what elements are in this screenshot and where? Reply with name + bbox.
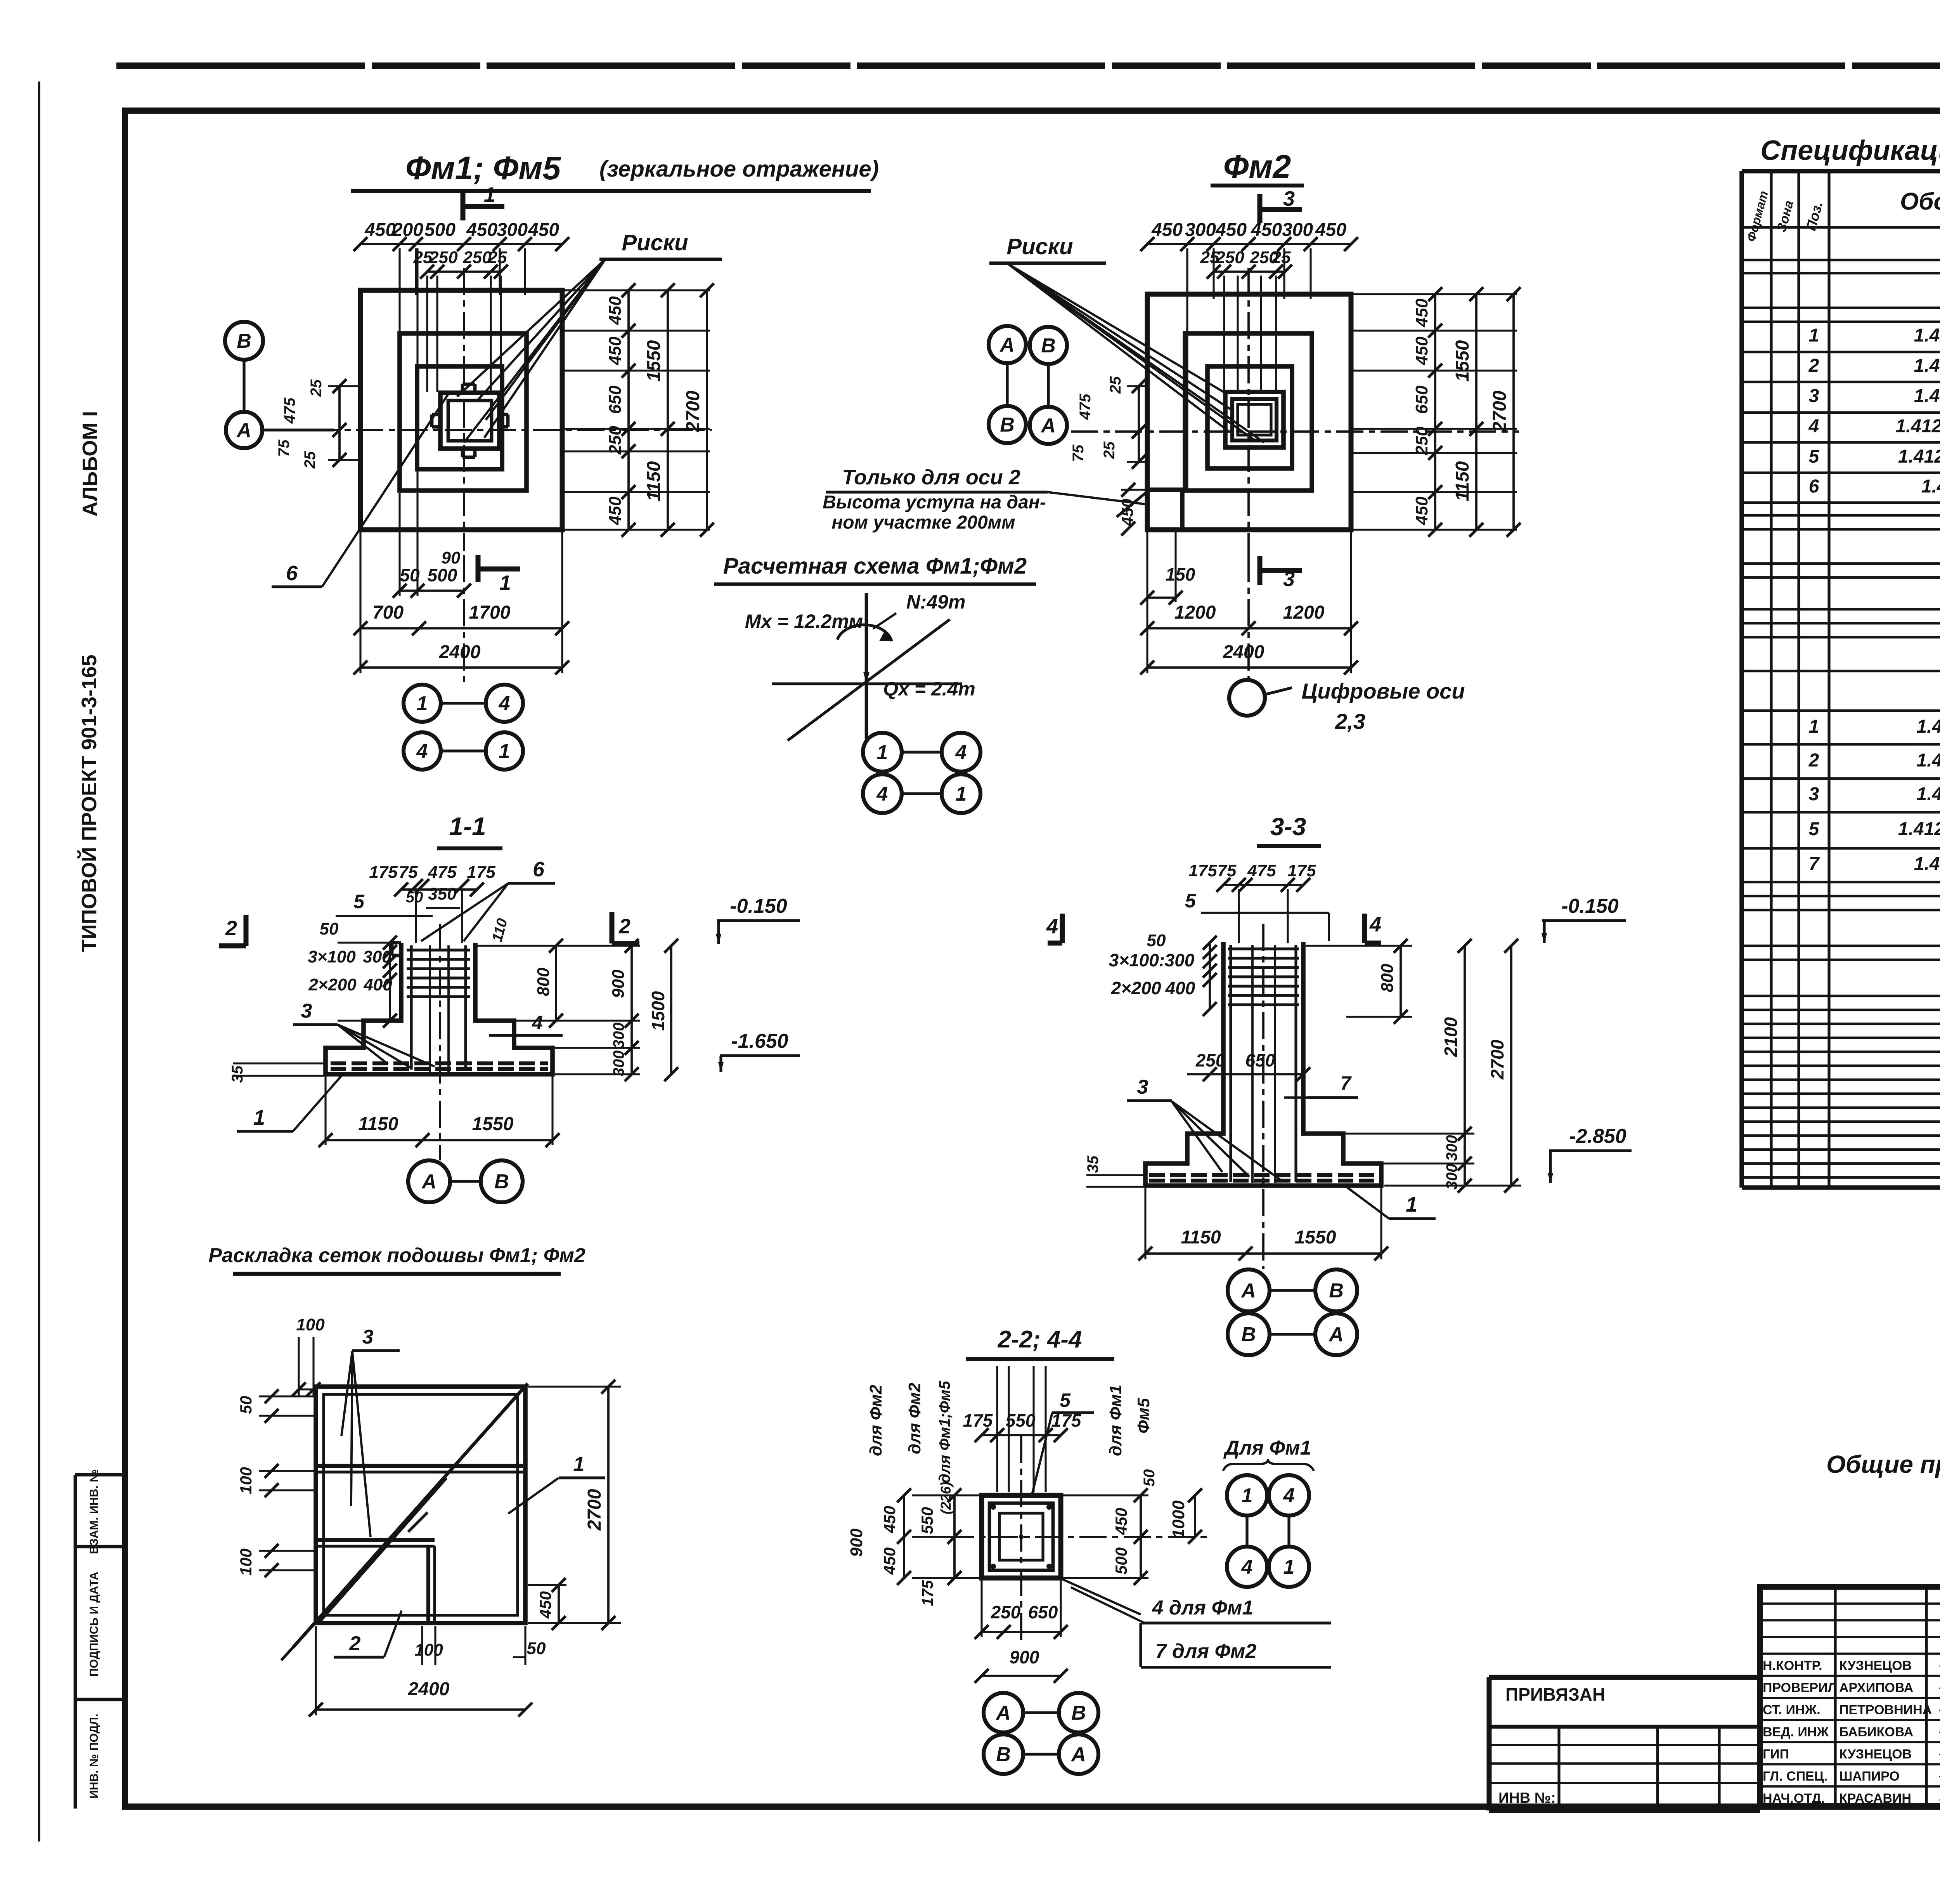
svg-text:200: 200 bbox=[392, 220, 423, 240]
svg-text:В: В bbox=[494, 1170, 509, 1193]
svg-text:АЛЬБОМ I: АЛЬБОМ I bbox=[78, 411, 102, 517]
svg-text:АРХИПОВА: АРХИПОВА bbox=[1839, 1680, 1913, 1695]
svg-text:300: 300 bbox=[1185, 220, 1216, 240]
svg-text:1-1: 1-1 bbox=[449, 812, 486, 841]
svg-text:А: А bbox=[999, 334, 1015, 356]
svg-text:1150: 1150 bbox=[644, 461, 664, 501]
svg-text:1.410-2. Вып.1: 1.410-2. Вып.1 bbox=[1914, 854, 1940, 874]
svg-text:3: 3 bbox=[1283, 567, 1295, 591]
svg-text:400: 400 bbox=[1165, 978, 1195, 998]
svg-text:2400: 2400 bbox=[408, 1679, 450, 1699]
svg-text:А: А bbox=[1328, 1323, 1344, 1346]
svg-text:Для Фм1: Для Фм1 bbox=[1223, 1437, 1311, 1459]
svg-text:100: 100 bbox=[414, 1640, 443, 1659]
svg-text:6: 6 bbox=[1809, 476, 1819, 497]
svg-text:7: 7 bbox=[1340, 1072, 1352, 1094]
svg-text:2: 2 bbox=[349, 1632, 361, 1655]
svg-text:КРАСАВИН: КРАСАВИН bbox=[1839, 1791, 1911, 1806]
svg-text:Qх = 2.4т: Qх = 2.4т bbox=[883, 678, 975, 700]
svg-text:250: 250 bbox=[1412, 427, 1431, 456]
svg-text:4: 4 bbox=[1369, 913, 1381, 936]
svg-text:ВЕД. ИНЖ: ВЕД. ИНЖ bbox=[1763, 1725, 1829, 1739]
svg-text:300: 300 bbox=[610, 1051, 627, 1077]
svg-text:ПОДПИСЬ И ДАТА: ПОДПИСЬ И ДАТА bbox=[88, 1572, 100, 1677]
svg-text:6: 6 bbox=[286, 562, 298, 585]
svg-text:300: 300 bbox=[1443, 1164, 1460, 1190]
svg-text:для Фм1: для Фм1 bbox=[1106, 1385, 1125, 1456]
svg-text:для Фм1;Фм5: для Фм1;Фм5 bbox=[936, 1380, 953, 1483]
svg-text:300: 300 bbox=[497, 220, 528, 240]
svg-text:450: 450 bbox=[606, 336, 625, 366]
svg-text:3×100: 3×100 bbox=[308, 947, 356, 966]
svg-text:400: 400 bbox=[363, 975, 392, 994]
svg-text:ПЕТРОВНИНА: ПЕТРОВНИНА bbox=[1839, 1703, 1932, 1717]
svg-text:ШАПИРО: ШАПИРО bbox=[1839, 1769, 1900, 1784]
svg-text:4 для Фм1: 4 для Фм1 bbox=[1152, 1597, 1254, 1619]
svg-text:250: 250 bbox=[991, 1602, 1021, 1622]
svg-text:4: 4 bbox=[1283, 1484, 1295, 1507]
svg-text:СТ. ИНЖ.: СТ. ИНЖ. bbox=[1763, 1703, 1820, 1717]
svg-text:А: А bbox=[1070, 1743, 1086, 1766]
svg-text:475: 475 bbox=[281, 397, 298, 424]
svg-text:1.410-2 Вып.1: 1.410-2 Вып.1 bbox=[1916, 784, 1940, 805]
svg-text:1: 1 bbox=[484, 183, 495, 206]
svg-text:1: 1 bbox=[253, 1106, 265, 1129]
svg-text:ПРОВЕРИЛ: ПРОВЕРИЛ bbox=[1763, 1680, 1837, 1695]
svg-text:2700: 2700 bbox=[683, 390, 703, 432]
svg-text:-1.650: -1.650 bbox=[731, 1030, 788, 1053]
svg-text:НАЧ.ОТД.: НАЧ.ОТД. bbox=[1763, 1791, 1825, 1806]
svg-text:3: 3 bbox=[1137, 1076, 1148, 1098]
svg-text:Риски: Риски bbox=[1006, 234, 1073, 259]
svg-text:100: 100 bbox=[237, 1549, 255, 1576]
svg-text:2,3: 2,3 bbox=[1335, 709, 1365, 734]
svg-text:Спецификация элементов монолит: Спецификация элементов монолитной констр… bbox=[1760, 135, 1940, 166]
svg-text:Фм5: Фм5 bbox=[1134, 1398, 1153, 1434]
svg-text:Только для оси 2: Только для оси 2 bbox=[842, 466, 1020, 489]
svg-text:1: 1 bbox=[1809, 325, 1819, 346]
svg-text:5: 5 bbox=[1809, 819, 1820, 839]
svg-text:1500: 1500 bbox=[648, 991, 668, 1031]
svg-text:450: 450 bbox=[364, 220, 396, 240]
svg-text:650: 650 bbox=[606, 385, 625, 414]
svg-text:75: 75 bbox=[1218, 861, 1237, 880]
svg-text:1: 1 bbox=[877, 741, 888, 764]
svg-text:1700: 1700 bbox=[469, 602, 511, 623]
svg-text:35: 35 bbox=[1084, 1155, 1102, 1173]
svg-text:350: 350 bbox=[428, 884, 457, 903]
svg-text:2100: 2100 bbox=[1441, 1017, 1461, 1057]
svg-text:1: 1 bbox=[956, 783, 967, 805]
svg-text:2-2; 4-4: 2-2; 4-4 bbox=[997, 1326, 1082, 1353]
svg-text:3: 3 bbox=[1283, 187, 1295, 210]
svg-text:3: 3 bbox=[301, 1000, 312, 1022]
svg-text:А: А bbox=[1040, 414, 1056, 437]
svg-text:1550: 1550 bbox=[644, 340, 664, 381]
svg-text:ТИПОВОЙ ПРОЕКТ 901-3-165: ТИПОВОЙ ПРОЕКТ 901-3-165 bbox=[77, 655, 101, 952]
svg-text:Расчетная схема Фм1;Фм2: Расчетная схема Фм1;Фм2 bbox=[723, 553, 1027, 579]
svg-text:25: 25 bbox=[1101, 441, 1118, 459]
svg-text:1550: 1550 bbox=[472, 1114, 514, 1134]
svg-text:ном участке 200мм: ном участке 200мм bbox=[831, 512, 1015, 533]
svg-text:2700: 2700 bbox=[1490, 390, 1510, 432]
svg-text:900: 900 bbox=[609, 969, 628, 998]
svg-text:В: В bbox=[237, 330, 251, 352]
svg-text:250: 250 bbox=[1215, 248, 1244, 267]
svg-text:5: 5 bbox=[1060, 1389, 1071, 1411]
svg-text:450: 450 bbox=[1412, 336, 1431, 366]
svg-text:4: 4 bbox=[1046, 915, 1058, 938]
svg-text:50: 50 bbox=[237, 1396, 255, 1414]
svg-text:ПРИВЯЗАН: ПРИВЯЗАН bbox=[1505, 1684, 1605, 1705]
svg-text:4: 4 bbox=[1808, 416, 1819, 437]
svg-text:Высота уступа на дан-: Высота уступа на дан- bbox=[823, 492, 1046, 513]
svg-text:КУЗНЕЦОВ: КУЗНЕЦОВ bbox=[1839, 1658, 1912, 1673]
svg-text:4: 4 bbox=[416, 740, 428, 763]
svg-text:900: 900 bbox=[847, 1528, 866, 1557]
svg-text:А: А bbox=[421, 1170, 436, 1193]
svg-text:1550: 1550 bbox=[1452, 340, 1473, 381]
svg-text:2×200: 2×200 bbox=[1110, 978, 1161, 998]
svg-text:250: 250 bbox=[1195, 1050, 1226, 1070]
svg-text:для Фм2: для Фм2 bbox=[866, 1384, 885, 1456]
svg-text:7: 7 bbox=[1809, 854, 1820, 874]
svg-text:1150: 1150 bbox=[358, 1114, 398, 1134]
svg-text:150: 150 bbox=[1166, 564, 1195, 584]
svg-text:500: 500 bbox=[424, 220, 456, 240]
svg-text:450: 450 bbox=[1112, 1508, 1130, 1535]
svg-text:3-3: 3-3 bbox=[1270, 813, 1306, 841]
svg-text:250: 250 bbox=[606, 426, 625, 455]
svg-text:175: 175 bbox=[1188, 861, 1217, 880]
svg-text:1.412.1-4.060: 1.412.1-4.060 bbox=[1921, 476, 1940, 497]
svg-text:А: А bbox=[995, 1702, 1011, 1724]
svg-text:100: 100 bbox=[237, 1467, 255, 1494]
svg-text:1.412-1/77-В.3-020: 1.412-1/77-В.3-020 bbox=[1898, 819, 1940, 839]
svg-text:1: 1 bbox=[1406, 1193, 1417, 1216]
svg-text:450: 450 bbox=[528, 220, 559, 240]
svg-text:450: 450 bbox=[606, 296, 625, 325]
svg-text:БАБИКОВА: БАБИКОВА bbox=[1839, 1725, 1913, 1739]
svg-text:3: 3 bbox=[362, 1326, 374, 1348]
svg-text:2: 2 bbox=[1808, 750, 1819, 771]
svg-text:50: 50 bbox=[406, 889, 423, 906]
svg-text:1.412-1/77- В3-020: 1.412-1/77- В3-020 bbox=[1898, 446, 1940, 467]
svg-text:5: 5 bbox=[1809, 446, 1820, 467]
svg-text:450: 450 bbox=[880, 1547, 899, 1575]
svg-text:Обозначение: Обозначение bbox=[1900, 188, 1940, 215]
svg-text:25: 25 bbox=[1271, 248, 1291, 267]
svg-text:-0.150: -0.150 bbox=[1561, 895, 1619, 917]
svg-text:2: 2 bbox=[225, 917, 237, 940]
svg-text:В: В bbox=[1241, 1323, 1256, 1346]
svg-text:1: 1 bbox=[573, 1453, 585, 1476]
svg-text:175: 175 bbox=[467, 863, 495, 882]
svg-text:1.410-2. Вып.1: 1.410-2. Вып.1 bbox=[1914, 325, 1940, 346]
svg-text:450: 450 bbox=[1315, 220, 1346, 240]
svg-text:2400: 2400 bbox=[439, 642, 481, 662]
svg-text:1000: 1000 bbox=[1169, 1500, 1188, 1538]
svg-text:ИНВ. № ПОДЛ.: ИНВ. № ПОДЛ. bbox=[88, 1714, 100, 1799]
svg-text:1: 1 bbox=[499, 740, 510, 763]
svg-text:1.412-1/77- В.3-100: 1.412-1/77- В.3-100 bbox=[1895, 416, 1940, 437]
svg-text:25: 25 bbox=[488, 248, 507, 267]
svg-text:50: 50 bbox=[320, 919, 339, 938]
svg-text:450: 450 bbox=[1251, 220, 1282, 240]
svg-text:2×200: 2×200 bbox=[308, 975, 357, 994]
svg-text:475: 475 bbox=[1077, 394, 1094, 420]
svg-text:800: 800 bbox=[1378, 964, 1397, 992]
svg-text:1: 1 bbox=[417, 692, 428, 715]
svg-text:175: 175 bbox=[963, 1410, 993, 1431]
svg-text:А: А bbox=[1240, 1280, 1256, 1302]
svg-text:50: 50 bbox=[1147, 931, 1166, 950]
svg-text:50: 50 bbox=[527, 1639, 546, 1658]
svg-text:Общие примечания смотреть на л: Общие примечания смотреть на листе КЖ-2. bbox=[1826, 1450, 1940, 1478]
svg-text:Цифровые оси: Цифровые оси bbox=[1302, 679, 1465, 703]
svg-text:650: 650 bbox=[1028, 1602, 1058, 1622]
svg-text:475: 475 bbox=[428, 863, 457, 882]
svg-text:N:49т: N:49т bbox=[906, 591, 966, 613]
svg-text:3×100:: 3×100: bbox=[1109, 950, 1165, 970]
svg-text:450: 450 bbox=[1215, 220, 1247, 240]
svg-text:1: 1 bbox=[1809, 716, 1819, 737]
svg-text:1200: 1200 bbox=[1174, 602, 1216, 623]
svg-text:ГЛ. СПЕЦ.: ГЛ. СПЕЦ. bbox=[1763, 1769, 1827, 1784]
svg-text:100: 100 bbox=[296, 1315, 325, 1334]
svg-text:450: 450 bbox=[466, 220, 497, 240]
svg-text:для Фм2: для Фм2 bbox=[905, 1382, 924, 1454]
svg-text:250: 250 bbox=[429, 248, 458, 267]
svg-text:КУЗНЕЦОВ: КУЗНЕЦОВ bbox=[1839, 1747, 1912, 1762]
svg-text:2: 2 bbox=[1808, 355, 1819, 376]
svg-text:Н.КОНТР.: Н.КОНТР. bbox=[1763, 1658, 1822, 1673]
svg-text:450: 450 bbox=[1412, 496, 1431, 525]
svg-text:50: 50 bbox=[1141, 1469, 1158, 1487]
svg-text:175: 175 bbox=[919, 1580, 936, 1606]
svg-text:300: 300 bbox=[1443, 1135, 1460, 1161]
svg-text:2: 2 bbox=[618, 915, 630, 938]
svg-text:550: 550 bbox=[918, 1507, 936, 1534]
svg-text:450: 450 bbox=[1412, 298, 1431, 328]
svg-text:3: 3 bbox=[1809, 386, 1819, 406]
svg-text:1.410-2. Вып.1: 1.410-2. Вып.1 bbox=[1914, 355, 1940, 376]
svg-text:300: 300 bbox=[1282, 220, 1313, 240]
svg-text:450: 450 bbox=[606, 496, 625, 525]
svg-text:7 для Фм2: 7 для Фм2 bbox=[1155, 1640, 1257, 1663]
svg-text:800: 800 bbox=[534, 968, 553, 996]
svg-text:Раскладка сеток подошвы Фм1: Раскладка сеток подошвы Фм1; Фм2 bbox=[208, 1244, 585, 1267]
svg-text:25: 25 bbox=[1107, 376, 1124, 394]
svg-text:ГИП: ГИП bbox=[1763, 1747, 1789, 1762]
svg-text:650: 650 bbox=[1245, 1050, 1275, 1070]
svg-text:1: 1 bbox=[1284, 1556, 1295, 1578]
svg-text:25: 25 bbox=[301, 451, 319, 469]
svg-text:ВЗАМ. ИНВ. №: ВЗАМ. ИНВ. № bbox=[88, 1469, 100, 1554]
svg-text:1.410-2 Вып.1: 1.410-2 Вып.1 bbox=[1916, 716, 1940, 737]
svg-text:75: 75 bbox=[399, 863, 418, 882]
svg-text:А: А bbox=[236, 419, 251, 442]
svg-text:450: 450 bbox=[536, 1591, 554, 1619]
svg-text:4: 4 bbox=[532, 1012, 543, 1034]
svg-text:450: 450 bbox=[880, 1506, 899, 1533]
svg-text:В: В bbox=[1071, 1702, 1086, 1724]
svg-text:2700: 2700 bbox=[1487, 1039, 1507, 1080]
svg-text:450: 450 bbox=[1151, 220, 1183, 240]
svg-text:В: В bbox=[996, 1743, 1011, 1766]
svg-text:В: В bbox=[1000, 414, 1015, 436]
svg-text:1.410-2. Вып.1: 1.410-2. Вып.1 bbox=[1914, 386, 1940, 406]
svg-text:4: 4 bbox=[1241, 1556, 1253, 1578]
svg-text:Фм2: Фм2 bbox=[1223, 148, 1291, 185]
svg-text:5: 5 bbox=[353, 891, 365, 912]
svg-text:1: 1 bbox=[499, 571, 511, 595]
svg-text:4: 4 bbox=[499, 692, 510, 715]
svg-text:2700: 2700 bbox=[584, 1489, 605, 1531]
svg-text:500: 500 bbox=[428, 565, 457, 585]
svg-text:550: 550 bbox=[1006, 1410, 1036, 1431]
svg-text:(зеркальное отражение): (зеркальное отражение) bbox=[599, 156, 879, 182]
svg-text:1200: 1200 bbox=[1283, 602, 1325, 623]
svg-text:175: 175 bbox=[1287, 861, 1316, 880]
svg-text:75: 75 bbox=[1070, 444, 1087, 462]
svg-text:75: 75 bbox=[275, 439, 293, 457]
svg-text:3: 3 bbox=[1809, 784, 1819, 805]
svg-text:-2.850: -2.850 bbox=[1569, 1125, 1626, 1148]
svg-text:90: 90 bbox=[442, 548, 461, 567]
svg-text:4: 4 bbox=[955, 741, 967, 764]
svg-text:1150: 1150 bbox=[1452, 461, 1473, 501]
svg-text:900: 900 bbox=[1010, 1647, 1039, 1667]
svg-text:650: 650 bbox=[1412, 385, 1431, 414]
svg-text:В: В bbox=[1329, 1280, 1344, 1302]
svg-text:6: 6 bbox=[533, 858, 545, 881]
svg-text:1550: 1550 bbox=[1295, 1227, 1336, 1248]
svg-text:35: 35 bbox=[229, 1065, 246, 1083]
svg-text:2400: 2400 bbox=[1223, 642, 1264, 662]
svg-text:700: 700 bbox=[372, 602, 404, 623]
svg-text:5: 5 bbox=[1185, 890, 1196, 912]
svg-text:-0.150: -0.150 bbox=[730, 895, 787, 917]
svg-text:Риски: Риски bbox=[622, 230, 688, 255]
svg-text:4: 4 bbox=[876, 783, 888, 805]
svg-text:300: 300 bbox=[610, 1023, 627, 1049]
svg-text:ИНВ №:: ИНВ №: bbox=[1498, 1790, 1556, 1806]
svg-text:1: 1 bbox=[1242, 1484, 1253, 1507]
svg-text:175: 175 bbox=[369, 863, 398, 882]
svg-text:В: В bbox=[1041, 335, 1056, 357]
svg-text:Фм1; Фм5: Фм1; Фм5 bbox=[405, 150, 561, 186]
svg-text:25: 25 bbox=[308, 379, 325, 397]
svg-text:300: 300 bbox=[1165, 950, 1195, 970]
svg-text:250: 250 bbox=[462, 248, 492, 267]
svg-text:1.410-2 Вып.1: 1.410-2 Вып.1 bbox=[1916, 750, 1940, 771]
svg-text:1150: 1150 bbox=[1181, 1227, 1221, 1248]
svg-text:500: 500 bbox=[1112, 1547, 1130, 1575]
